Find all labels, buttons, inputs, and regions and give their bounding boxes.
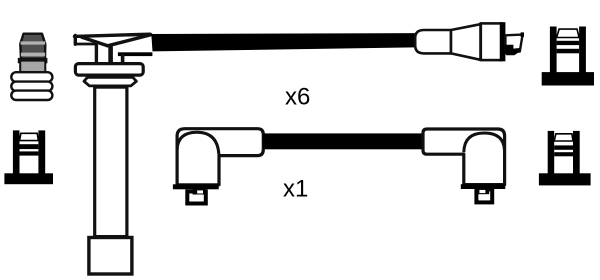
straight boot: terminal tip [504, 32, 524, 55]
coil boot: bow-tie top bar [75, 34, 152, 46]
straight boot: flare cone [451, 24, 481, 60]
coil boot: collar bulge [84, 77, 136, 86]
ignition wire bottom [263, 133, 423, 149]
plug boot left: foot plate [173, 184, 219, 189]
plug boot right: foot plate [461, 184, 506, 189]
straight boot: head block right bar [500, 22, 506, 61]
coil boot: stem [96, 44, 110, 63]
plug boot left: crimp terminal [187, 189, 206, 204]
quantity label x6 [285, 84, 310, 111]
coil boot: square end [89, 238, 132, 275]
spark plug ribs (3 white rings) [11, 72, 52, 100]
coil boot: long tube [95, 87, 127, 237]
plug boot right (90 degree) silhouette [423, 129, 505, 185]
svg-text:x1: x1 [283, 176, 308, 203]
straight boot: head block [481, 23, 501, 60]
terminal icon top-right [542, 27, 594, 86]
coil boot: flange [75, 64, 143, 76]
plug boot right: bell arc [464, 133, 505, 152]
terminal icon bottom-left [4, 130, 53, 184]
straight boot: sleeve [415, 30, 451, 53]
plug boot left (90 degree) silhouette [177, 129, 263, 185]
terminal icon right-middle [539, 131, 591, 186]
plug boot right: crimp terminal [476, 188, 492, 202]
quantity label x1 [283, 176, 308, 203]
ignition wire top [151, 33, 415, 51]
coil boot: wire bracket [118, 52, 152, 63]
spark plug terminal nut (dark gray) [20, 34, 45, 59]
svg-text:x6: x6 [285, 84, 310, 111]
plug boot left: bell arc [177, 132, 219, 154]
spark plug insulator (medium gray) [19, 59, 47, 72]
